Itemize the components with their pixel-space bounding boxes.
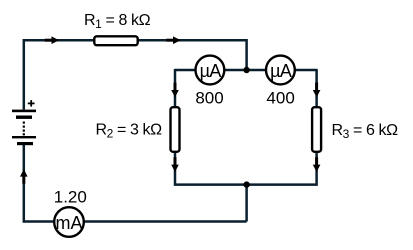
resistor R3	[312, 107, 321, 152]
svg-text:R3 = 6 kΩ: R3 = 6 kΩ	[332, 122, 399, 141]
current arrow into R3 (down)	[313, 83, 321, 98]
current arrow out of R2 (down)	[171, 157, 179, 172]
resistor R1	[94, 36, 137, 45]
current arrow on left wire (up, toward battery)	[20, 169, 28, 184]
svg-text:mA: mA	[56, 213, 83, 233]
ammeter M2 (microA, right)	[266, 56, 295, 85]
svg-text:µA: µA	[270, 61, 292, 81]
svg-text:µA: µA	[200, 61, 222, 81]
current arrow into R2 (down)	[171, 83, 179, 98]
ammeter M1 (microA, left)	[196, 56, 225, 85]
battery V1	[12, 110, 36, 146]
svg-text:R1 = 8 kΩ: R1 = 8 kΩ	[84, 12, 151, 31]
ammeter M3 (mA, bottom)	[54, 207, 84, 237]
junction node B (bottom collector)	[243, 181, 249, 187]
wire left branch down to R2	[174, 69, 177, 107]
wire meter row (node A across ammeters)	[175, 69, 317, 72]
wire node B down to bottom rail	[245, 185, 248, 222]
battery plus sign	[28, 100, 35, 107]
resistor R2	[171, 107, 180, 152]
current arrow on top wire (right of R1)	[166, 36, 181, 44]
current arrow on top wire (left)	[45, 36, 59, 44]
svg-text:800: 800	[195, 88, 223, 107]
svg-text:1.20: 1.20	[54, 187, 87, 206]
svg-text:400: 400	[266, 88, 294, 107]
svg-text:R2 = 3 kΩ: R2 = 3 kΩ	[96, 122, 163, 141]
wire bottom rail through mA meter back to battery	[24, 145, 247, 222]
junction node A (between ammeters)	[243, 67, 249, 73]
current arrow out of R3 (down)	[313, 157, 321, 172]
wire right branch down to R3	[315, 69, 318, 107]
wire top (battery + to node A)	[24, 40, 247, 109]
wire R2 bottom to node B	[175, 153, 317, 185]
